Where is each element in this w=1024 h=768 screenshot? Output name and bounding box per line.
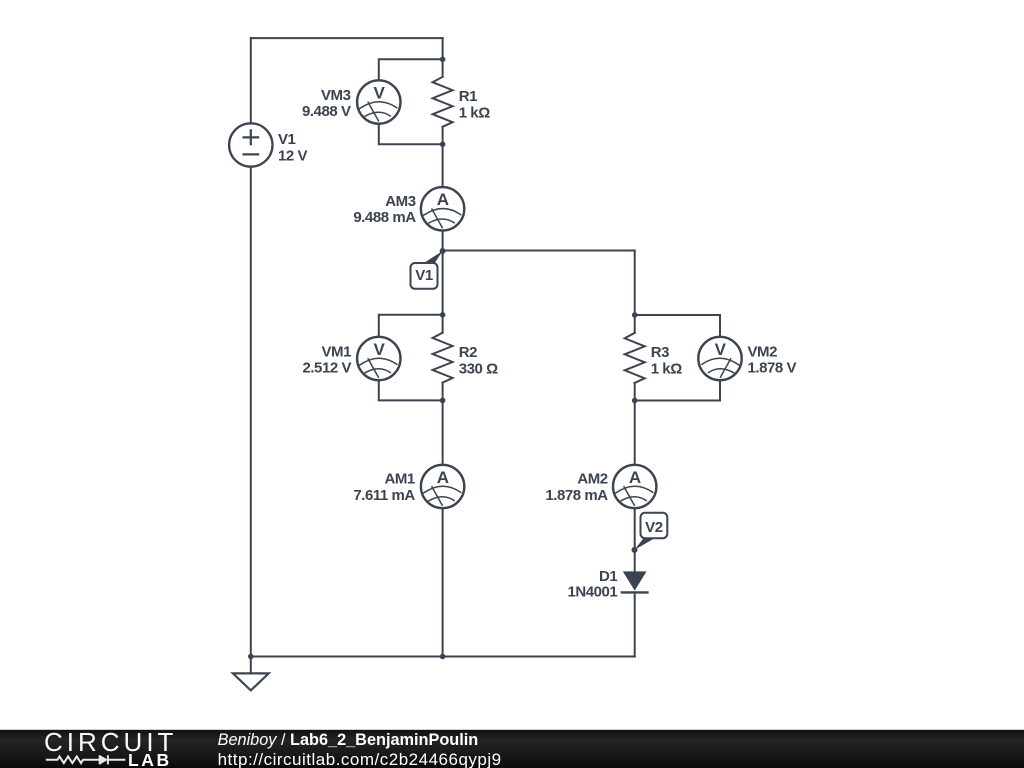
wire: middle rail (R1 to AM3): [442, 127, 444, 187]
svg-text:9.488 mA: 9.488 mA: [353, 209, 416, 226]
svg-text:V: V: [715, 340, 727, 359]
junction dot: net V2 tap: [632, 547, 638, 553]
svg-text:1 kΩ: 1 kΩ: [459, 105, 491, 122]
junction dot: R3/VM2 top: [632, 312, 638, 318]
wire: right rail (AM2 to diode D1): [634, 508, 636, 572]
svg-text:7.611 mA: 7.611 mA: [353, 487, 415, 504]
voltmeter VM3: [357, 80, 400, 123]
svg-text:http://circuitlab.com/c2b24466: http://circuitlab.com/c2b24466qypj9: [218, 750, 502, 768]
wire: middle rail (AM3 through node V1 to R2): [442, 231, 444, 333]
ground symbol stem: [250, 657, 252, 674]
svg-text:1N4001: 1N4001: [567, 583, 617, 600]
svg-text:330 Ω: 330 Ω: [459, 361, 498, 378]
svg-text:V: V: [373, 83, 385, 102]
wire: VM2 top branch: [635, 315, 720, 337]
ammeter AM1: [421, 465, 464, 508]
wire: top rail horizontal: [251, 37, 443, 39]
wire: VM3 top branch: [379, 59, 443, 80]
svg-text:VM2: VM2: [748, 344, 778, 361]
svg-text:2.512 V: 2.512 V: [302, 359, 351, 376]
voltmeter VM1: [357, 337, 400, 380]
wire: left rail upper (top rail to V1 top): [250, 38, 252, 123]
junction dot: node V1: [440, 248, 446, 254]
wire: left rail lower (V1 bottom to bottom rail): [250, 167, 252, 657]
resistor R2: [433, 333, 453, 383]
wire: VM1 top branch: [379, 315, 443, 337]
wire: VM3 bottom branch: [379, 124, 443, 145]
svg-text:1 kΩ: 1 kΩ: [651, 361, 683, 378]
wire: right rail (D1 to bottom rail): [634, 592, 636, 656]
svg-text:AM1: AM1: [384, 471, 414, 488]
net flag V1 pointer wedge: [423, 251, 442, 263]
svg-text:V: V: [373, 340, 385, 359]
CircuitLab logo symbol: wire-resistor-diode: [46, 755, 126, 764]
svg-text:9.488 V: 9.488 V: [302, 103, 351, 120]
voltmeter VM2 (mirrored): [698, 337, 741, 380]
voltage source V1: [229, 123, 272, 166]
net flag V2 pointer wedge: [635, 538, 655, 550]
resistor R1: [433, 77, 453, 127]
svg-text:R1: R1: [459, 88, 477, 105]
CircuitLab logo diode triangle: [100, 755, 108, 765]
svg-text:R2: R2: [459, 344, 477, 361]
diode D1 cathode bar: [622, 591, 648, 593]
svg-text:D1: D1: [599, 568, 617, 585]
junction dot: R1/VM3 bottom: [440, 142, 446, 148]
resistor R3: [625, 333, 645, 383]
svg-text:AM2: AM2: [577, 471, 607, 488]
wire: middle rail (AM1 to bottom rail): [442, 508, 444, 656]
wire: right rail (R3 to AM2): [634, 383, 636, 465]
junction dot: AM1 bottom tap: [440, 654, 446, 660]
net flag V2 box: [641, 513, 668, 538]
wire: middle rail (R2 to AM1): [442, 383, 444, 465]
ground symbol triangle: [233, 673, 269, 690]
ammeter AM3: [421, 187, 464, 230]
junction dot: R2/VM1 top: [440, 312, 446, 318]
svg-text:VM3: VM3: [321, 87, 351, 104]
svg-text:1.878 mA: 1.878 mA: [545, 487, 608, 504]
svg-text:Beniboy / Lab6_2_BenjaminPouli: Beniboy / Lab6_2_BenjaminPoulin: [218, 731, 479, 749]
svg-text:A: A: [629, 468, 641, 487]
wire: right rail (node V1 to R3): [634, 251, 636, 333]
svg-text:V1: V1: [278, 131, 296, 148]
wire: middle rail top segment (top rail to R1): [442, 38, 444, 77]
svg-text:VM1: VM1: [322, 344, 352, 361]
svg-text:R3: R3: [651, 344, 669, 361]
footer bar: [0, 730, 1024, 768]
wire: VM1 bottom branch: [379, 380, 443, 400]
svg-text:A: A: [437, 468, 449, 487]
svg-text:AM3: AM3: [385, 193, 415, 210]
junction dot: R1/VM3 top: [440, 57, 446, 63]
junction dot: R3/VM2 bottom: [632, 398, 638, 404]
junction dot: ground tap: [248, 654, 254, 660]
wire: VM2 bottom branch: [635, 380, 720, 400]
junction dot: R2/VM1 bottom: [440, 398, 446, 404]
wire: bottom rail horizontal: [251, 656, 635, 658]
wire: node V1 horizontal to right rail: [443, 250, 635, 252]
svg-text:LAB: LAB: [128, 750, 172, 768]
ammeter AM2: [613, 465, 656, 508]
diode D1 triangle (anode): [623, 571, 647, 590]
svg-text:V1: V1: [415, 267, 433, 284]
svg-text:V2: V2: [645, 519, 663, 536]
svg-text:12 V: 12 V: [278, 148, 308, 165]
svg-text:A: A: [437, 190, 449, 209]
net flag V1 box: [411, 263, 438, 289]
svg-text:1.878 V: 1.878 V: [748, 359, 797, 376]
